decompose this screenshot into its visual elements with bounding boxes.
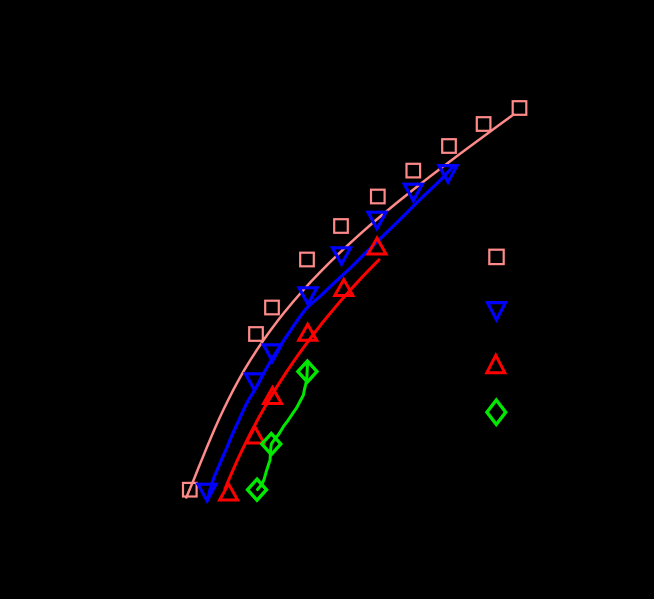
legend pink square	[489, 250, 503, 264]
blue down-triangle marker T8	[198, 484, 216, 501]
pink square marker S1	[513, 101, 527, 115]
pink square marker S3	[442, 139, 456, 153]
pink square marker S10	[183, 483, 197, 497]
red up-triangle marker R5	[246, 427, 264, 443]
pink square marker S9	[249, 327, 263, 341]
green diamond marker D2	[262, 434, 281, 455]
blue down-triangle marker T6	[263, 345, 281, 361]
blue down-triangle marker T2	[404, 184, 422, 201]
red fit curve (series 3)	[225, 260, 379, 489]
blue down-triangle marker T4	[333, 248, 351, 264]
pink square marker S4	[407, 164, 421, 178]
pink square marker S7	[300, 253, 314, 267]
red up-triangle marker R6	[220, 484, 238, 500]
blue down-triangle marker T1	[439, 166, 457, 183]
red up-triangle marker R4	[264, 388, 282, 404]
legend blue down-triangle	[488, 303, 506, 320]
pink square marker S8	[265, 301, 279, 315]
red up-triangle marker R3	[299, 324, 317, 340]
blue fit curve (series 2)	[208, 168, 453, 501]
legend green diamond	[487, 400, 506, 424]
green diamond marker D1	[298, 361, 317, 382]
pink square marker S6	[334, 219, 348, 233]
blue down-triangle marker T7	[246, 374, 264, 390]
pink square marker S5	[371, 190, 385, 204]
blue down-triangle marker T5	[299, 288, 317, 304]
pink square marker S2	[477, 117, 491, 131]
green diamond marker D3	[248, 479, 267, 500]
red up-triangle marker R2	[335, 280, 353, 296]
green fit curve (series 4)	[258, 364, 308, 490]
pink fit curve (series 1)	[186, 115, 513, 498]
blue down-triangle marker T3	[368, 212, 386, 229]
red up-triangle marker R1	[368, 238, 386, 254]
legend red up-triangle	[487, 355, 505, 372]
